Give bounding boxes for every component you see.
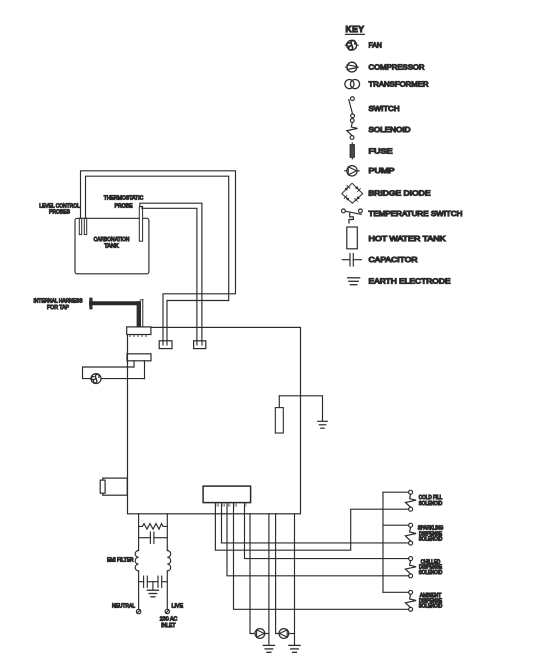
earth electrode symbol (key) (348, 278, 360, 285)
wire J5 pin1 to cold fill solenoid (low side) (215, 503, 408, 551)
svg-text:TRANSFORMER: TRANSFORMER (369, 82, 429, 89)
svg-text:FOR TAP: FOR TAP (47, 304, 70, 311)
svg-text:PUMP: PUMP (369, 168, 395, 175)
wire solenoid common bus (382, 492, 384, 592)
svg-text:TANK: TANK (104, 243, 119, 250)
main control board outline (128, 327, 301, 513)
svg-text:HOT WATER TANK: HOT WATER TANK (369, 236, 446, 243)
wire board to pump P2 earth (294, 514, 296, 645)
svg-text:THERMOSTATIC: THERMOSTATIC (104, 195, 144, 202)
connector J1 (harness connector on board top-left) (127, 327, 151, 337)
wire fan return (101, 378, 145, 380)
connector J2 (level probes) (159, 341, 172, 349)
wire bus to cold fill solenoid top (383, 491, 409, 493)
pump P1 (255, 629, 265, 639)
svg-text:BRIDGE DIODE: BRIDGE DIODE (369, 191, 431, 198)
svg-text:FUSE: FUSE (369, 148, 393, 155)
svg-text:COMPRESSOR: COMPRESSOR (369, 65, 425, 72)
capacitor C1 on board left edge (100, 478, 127, 495)
terminal neutral inlet (136, 609, 140, 613)
level control probes (79, 218, 86, 234)
svg-text:CAPACITOR: CAPACITOR (369, 257, 418, 264)
wire CY midpoint to ground (152, 582, 154, 590)
fan M1 (91, 374, 101, 384)
svg-text:SOLENOID: SOLENOID (419, 500, 443, 506)
svg-text:SPARKLING: SPARKLING (418, 525, 444, 531)
label sparkling dispense solenoid (418, 525, 444, 541)
solenoid SOL2 sparkling dispense (405, 523, 416, 545)
svg-text:SOLENOID: SOLENOID (419, 603, 443, 609)
solenoid SOL3 chilled dispense (405, 557, 416, 578)
solenoid symbol (key) (347, 119, 358, 140)
label neutral (112, 603, 135, 610)
svg-text:SOLENOID: SOLENOID (419, 569, 443, 575)
svg-text:NEUTRAL: NEUTRAL (112, 603, 135, 610)
terminal live inlet (165, 609, 169, 613)
hot water tank symbol (key) (347, 227, 358, 249)
wire J5 pin4 to ambient dispense solenoid (low side) (234, 503, 409, 610)
label 230 AC inlet (160, 616, 178, 629)
label cold fill solenoid (419, 494, 443, 506)
EMI filter: left rail lower (138, 571, 140, 609)
label ambient dispense solenoid (419, 592, 443, 608)
svg-text:EMI FILTER: EMI FILTER (107, 557, 134, 564)
label thermostatic probe (104, 195, 144, 210)
compressor symbol (key) (346, 62, 359, 72)
pump P2 (279, 629, 289, 639)
ground (pump P1 earth) (263, 645, 274, 652)
ground (fuse earth) (318, 421, 328, 428)
svg-text:SOLENOID: SOLENOID (419, 536, 443, 542)
label live (172, 603, 184, 610)
wire J5 pin3 to chilled dispense solenoid (low side) (227, 503, 409, 576)
EMI filter: right rail (live) (166, 514, 168, 551)
EMI filter capacitor CY1 (139, 576, 158, 587)
EMI filter inductor L2 (right) (167, 551, 170, 571)
svg-text:EARTH ELECTRODE: EARTH ELECTRODE (369, 279, 451, 286)
svg-text:PROBE: PROBE (115, 203, 134, 210)
wire J5 pin2 to sparkling dispense solenoid (low side) (222, 503, 409, 543)
capacitor symbol (key) (342, 254, 361, 267)
label level control probes (39, 203, 80, 216)
connector J5 (output connector, board bottom) (203, 486, 251, 506)
label internal harness for tap (34, 298, 84, 311)
EMI filter inductor L1 (left) (135, 551, 138, 571)
EMI filter resistor (139, 524, 168, 530)
internal harness for tap (89, 298, 143, 328)
fan symbol (key) (345, 40, 358, 50)
wire bus to sparkling solenoid top (383, 524, 409, 526)
svg-text:KEY: KEY (346, 24, 365, 34)
solenoid SOL1 cold fill (405, 490, 416, 511)
wire thermostatic probe to connector J3 pin 1 (140, 203, 202, 341)
svg-text:SWITCH: SWITCH (369, 106, 400, 113)
bridge diode symbol (key) (342, 183, 371, 203)
wire level probe 1 to connector J2 pin 1 (81, 171, 236, 341)
wire level probe 2 to connector J2 pin 2 (86, 176, 229, 341)
EMI filter: right rail lower (166, 571, 168, 609)
thermostatic probe (139, 207, 142, 242)
EMI filter: left rail (neutral) (138, 514, 140, 551)
solenoid SOL4 ambient dispense (405, 590, 416, 611)
fuse symbol (key) (350, 143, 354, 159)
carbonation tank (75, 218, 149, 273)
temperature switch symbol (key) (342, 209, 363, 223)
transformer symbol (key) (345, 80, 360, 89)
fuse F1 (275, 396, 283, 433)
svg-text:LIVE: LIVE (172, 603, 184, 610)
ground (EMI filter earth) (147, 590, 158, 597)
switch symbol (key) (349, 97, 355, 118)
svg-text:FAN: FAN (369, 43, 382, 50)
wire pump P2 to earth junction (289, 633, 295, 635)
svg-text:COLD FILL: COLD FILL (419, 494, 443, 500)
connector J4 (fan connector) (127, 354, 151, 379)
svg-text:TEMPERATURE SWITCH: TEMPERATURE SWITCH (369, 211, 463, 218)
label EMI filter (107, 557, 134, 564)
label carbonation tank (94, 236, 130, 249)
wire fuse to earth (279, 396, 322, 421)
EMI filter capacitor CY2 (158, 576, 167, 587)
connector J3 (thermostatic probe) (194, 341, 206, 349)
EMI filter capacitor CX1 (139, 532, 168, 543)
wire bus to ambient solenoid top (383, 591, 409, 593)
wire pump P1 to earth junction (265, 633, 269, 635)
wire fan supply (83, 367, 135, 379)
wire board to pump P1 live (250, 514, 255, 634)
pump symbol (key) (345, 166, 359, 176)
wire J5 pin5 to solenoid common (chilled top) (245, 503, 409, 559)
wire board to pump P1 earth (268, 514, 270, 645)
key title KEY (346, 24, 365, 35)
wire board to pump P2 live (276, 514, 279, 634)
svg-text:PROBES: PROBES (49, 209, 71, 216)
label chilled dispense solenoid (419, 559, 443, 575)
svg-text:AMBIENT: AMBIENT (420, 592, 442, 598)
wire thermostatic probe to connector J3 pin 2 (142, 207, 197, 342)
ground (pump P2 earth) (289, 645, 300, 652)
svg-text:SOLENOID: SOLENOID (369, 127, 411, 134)
svg-text:INLET: INLET (161, 622, 175, 629)
